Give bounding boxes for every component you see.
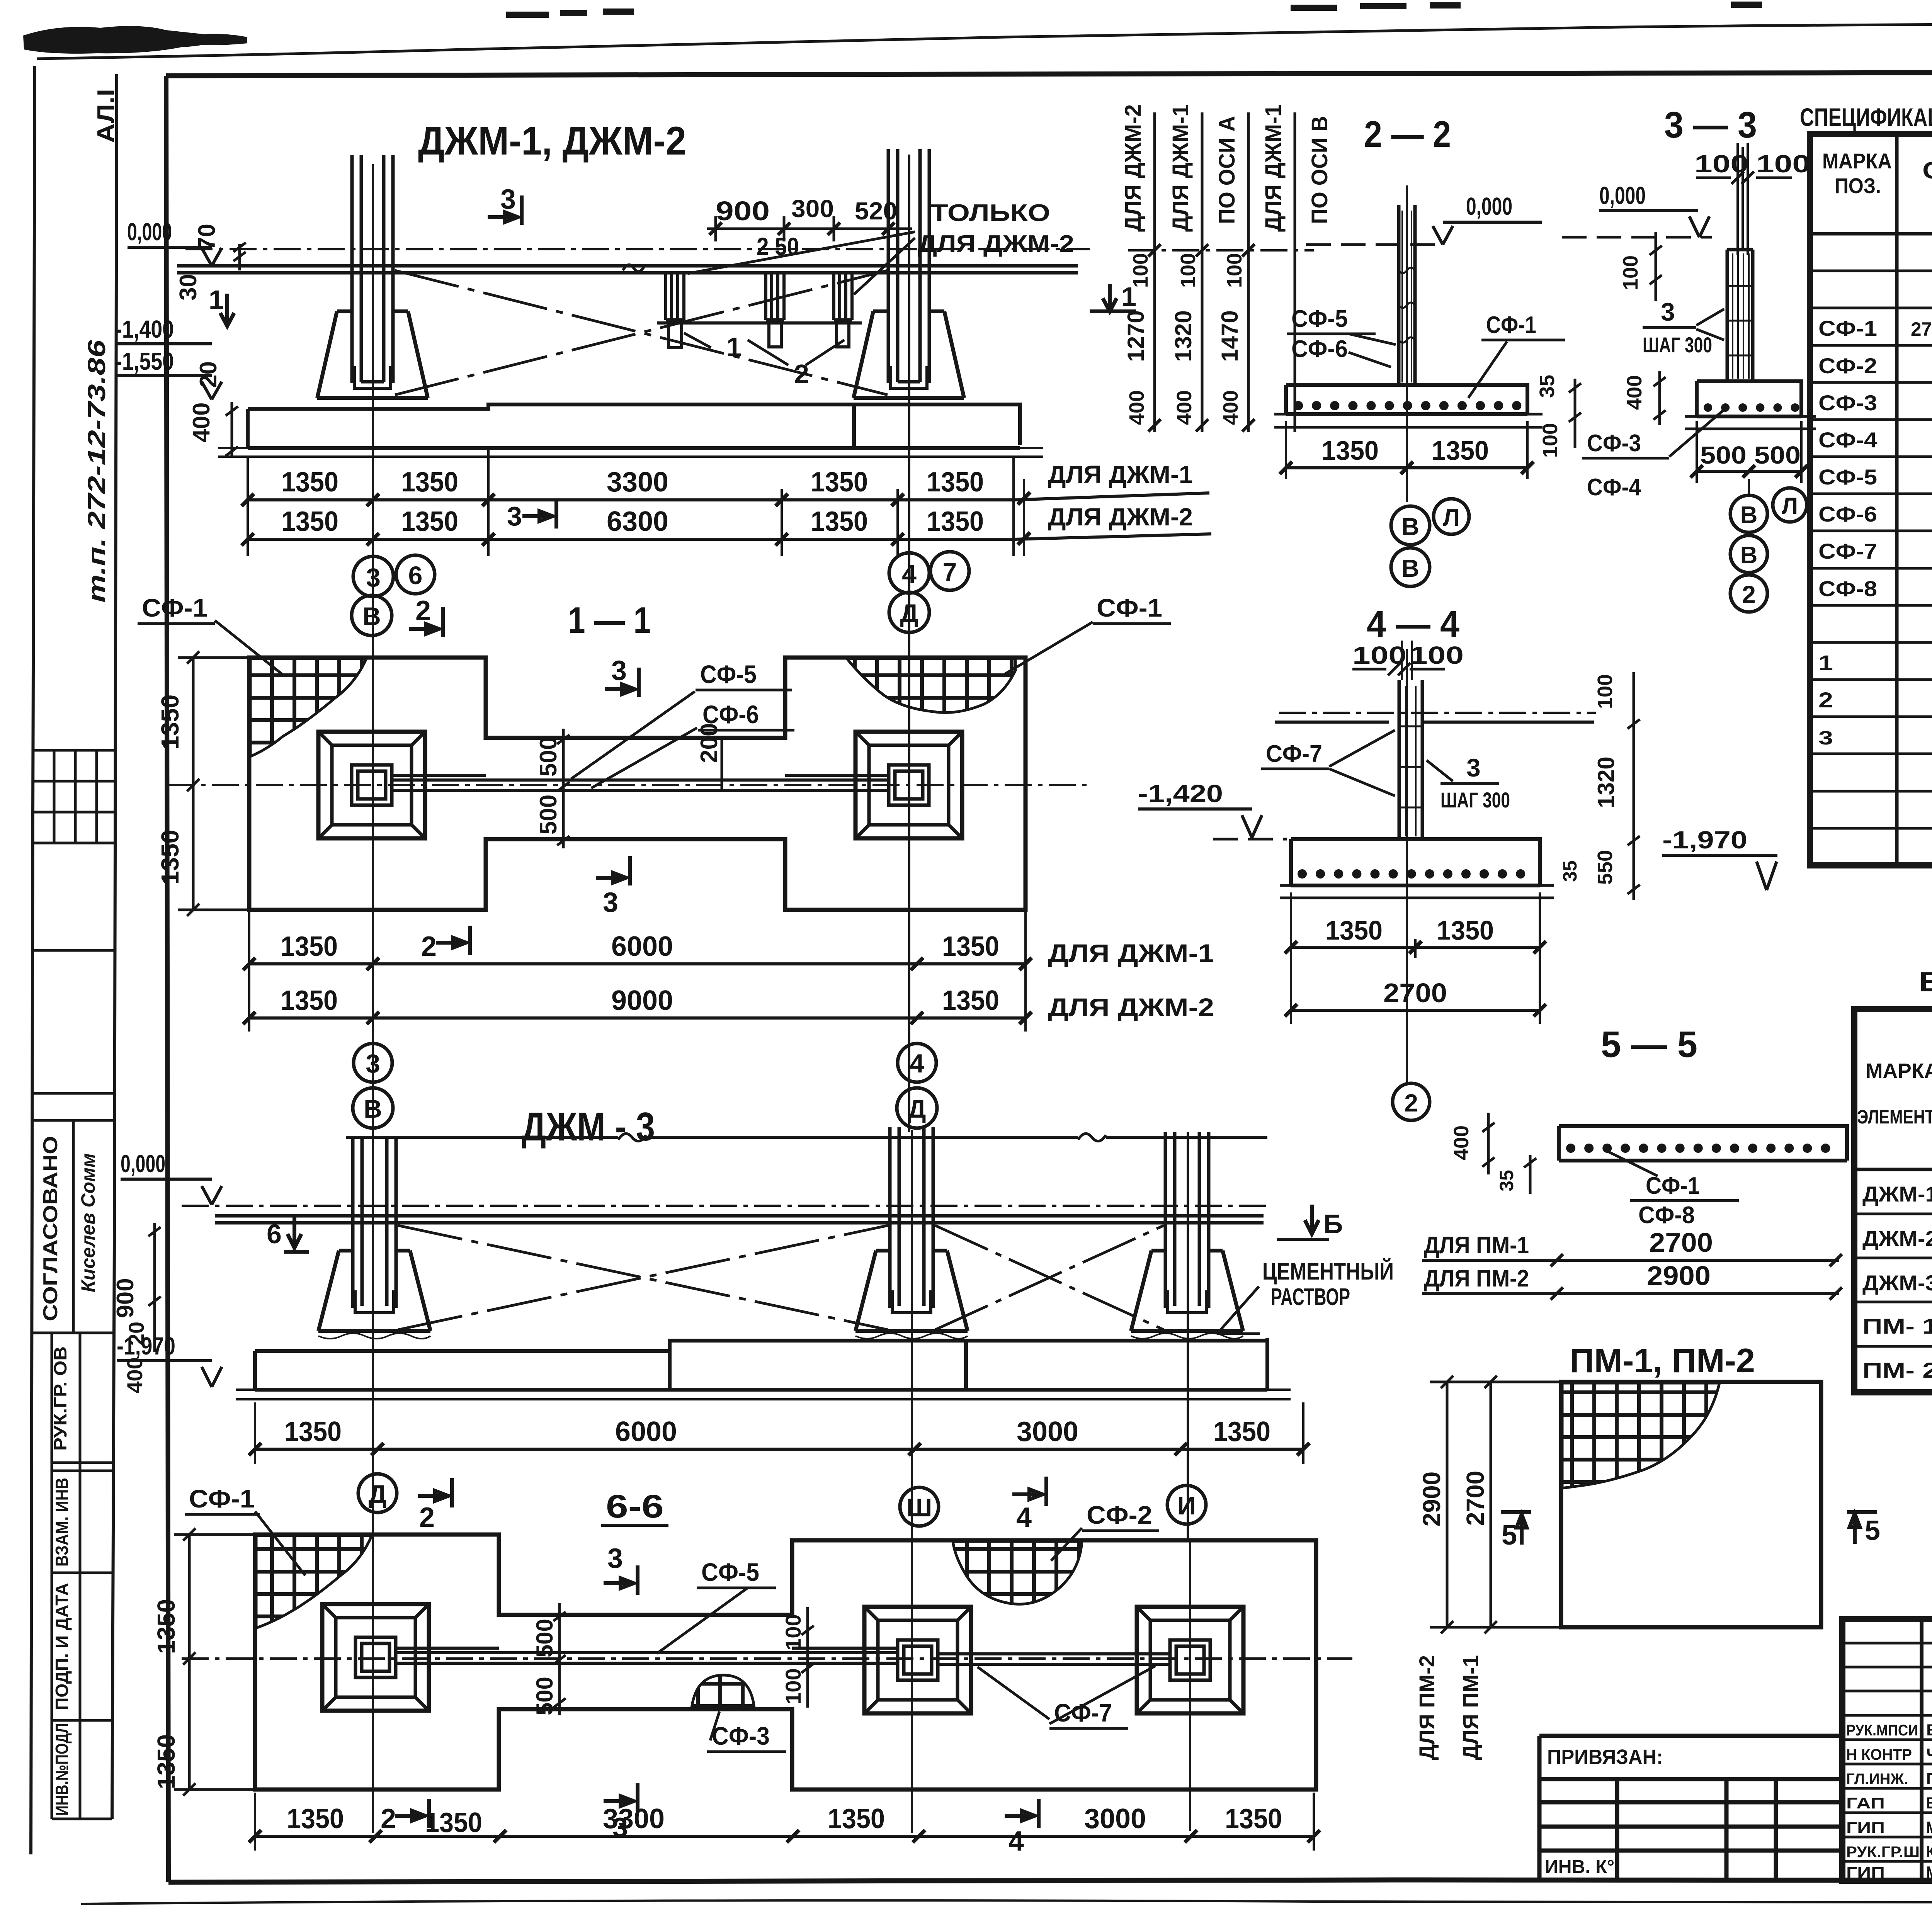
svg-text:В: В — [1401, 554, 1419, 582]
table1 column lines — [1897, 134, 1932, 865]
svg-text:1350: 1350 — [1437, 915, 1494, 945]
svg-text:2700: 2700 — [1649, 1227, 1713, 1258]
svg-text:1320: 1320 — [1170, 310, 1196, 362]
svg-text:ПО ОСИ А: ПО ОСИ А — [1214, 116, 1240, 224]
svg-text:4: 4 — [910, 1049, 924, 1078]
svg-text:ДЛЯ ДЖМ-1: ДЛЯ ДЖМ-1 — [1048, 939, 1214, 967]
svg-text:СФ-5: СФ-5 — [1818, 465, 1877, 489]
column left shaft — [352, 155, 393, 383]
svg-text:3: 3 — [1818, 727, 1833, 749]
svg-text:100: 100 — [1756, 150, 1810, 178]
svg-text:35: 35 — [1559, 860, 1581, 882]
floor lines both sides — [1275, 721, 1594, 724]
svg-text:МАРКА: МАРКА — [1822, 149, 1892, 173]
svg-text:35: 35 — [1536, 375, 1559, 398]
dim row2 ticks — [241, 532, 1030, 546]
dim row1 ticks — [241, 492, 1030, 506]
axis pad3 — [1189, 1541, 1191, 1831]
scanner blob top-left — [23, 26, 216, 54]
svg-text:СФ-5: СФ-5 — [1291, 306, 1348, 332]
svg-text:СФ-3: СФ-3 — [712, 1722, 770, 1750]
wall centerline — [182, 1657, 1352, 1660]
grid bubble Ш — [900, 1487, 939, 1526]
svg-text:1350: 1350 — [927, 506, 984, 537]
svg-text:1350: 1350 — [811, 467, 868, 498]
axis col3 — [1187, 1132, 1189, 1541]
mesh hatch top-left 6-6 — [256, 1536, 372, 1628]
vertical dim line left of plan — [178, 651, 255, 916]
svg-text:6: 6 — [267, 1219, 282, 1249]
svg-text:3000: 3000 — [1017, 1416, 1078, 1447]
note leaders — [688, 232, 915, 294]
floor break squiggle — [623, 265, 645, 271]
svg-text:4: 4 — [902, 559, 917, 589]
column 1 socket cup — [355, 1290, 394, 1313]
svg-text:500: 500 — [532, 1677, 558, 1715]
svg-text:БУКСОН: БУКСОН — [1926, 1721, 1932, 1739]
section mark 4 in row — [1005, 1799, 1039, 1828]
svg-text:РАСТВОР: РАСТВОР — [1271, 1284, 1350, 1310]
svg-text:4: 4 — [1016, 1502, 1032, 1533]
svg-text:1350: 1350 — [281, 506, 338, 537]
svg-text:СФ-2: СФ-2 — [1087, 1501, 1152, 1529]
level dash line — [1306, 243, 1445, 246]
svg-text:3: 3 — [603, 887, 618, 918]
main frame top border — [166, 72, 1932, 76]
column right shaft — [888, 149, 929, 383]
level dash-dot — [182, 1205, 1267, 1207]
svg-text:100: 100 — [1594, 674, 1617, 709]
title block left verticals — [1922, 1619, 1932, 1881]
svg-text:-1,400: -1,400 — [115, 315, 174, 343]
svg-text:6: 6 — [408, 561, 423, 590]
svg-text:ДЛЯ ДЖМ-1: ДЛЯ ДЖМ-1 — [1048, 461, 1193, 488]
rebar pair above column — [1402, 641, 1412, 680]
svg-text:500: 500 — [532, 1619, 558, 1657]
svg-text:1320: 1320 — [1593, 756, 1619, 808]
svg-text:ГЛ.ИНЖ.: ГЛ.ИНЖ. — [1846, 1771, 1908, 1788]
cross brace X 1-2 — [398, 1225, 888, 1330]
svg-text:1350: 1350 — [401, 506, 458, 537]
dim extensions — [255, 1402, 1303, 1464]
rebar hooks 4-4 — [1302, 869, 1536, 879]
svg-text:СФ-6: СФ-6 — [1818, 502, 1877, 526]
svg-text:1350: 1350 — [287, 1803, 344, 1834]
svg-text:СФ-8: СФ-8 — [1638, 1202, 1695, 1229]
slab bedding — [236, 1390, 1291, 1399]
svg-text:ГЛАВВЕР: ГЛАВВЕР — [1926, 1769, 1932, 1788]
svg-text:ДЖМ-3: ДЖМ-3 — [1862, 1271, 1932, 1295]
svg-text:Д: Д — [908, 1094, 926, 1123]
svg-text:100: 100 — [1129, 253, 1152, 288]
svg-text:2700: 2700 — [1461, 1471, 1489, 1526]
svg-text:ДЖМ-1, ДЖМ-2: ДЖМ-1, ДЖМ-2 — [418, 119, 686, 163]
svg-text:ДЛЯ ДЖМ-2: ДЛЯ ДЖМ-2 — [1121, 104, 1146, 232]
svg-text:500: 500 — [1754, 441, 1801, 469]
svg-text:2 — 2: 2 — 2 — [1364, 114, 1451, 155]
svg-text:ПОЗ.: ПОЗ. — [1835, 173, 1881, 198]
svg-text:СФ-4: СФ-4 — [1587, 474, 1641, 501]
mortar squiggles — [318, 1333, 1243, 1339]
svg-text:400: 400 — [188, 403, 215, 442]
svg-text:0,000: 0,000 — [121, 1150, 165, 1178]
bubble 2 — [1730, 575, 1767, 612]
table2 outer box — [1854, 1009, 1932, 1392]
bubble 2 — [1393, 1083, 1430, 1120]
column mesh waves — [1733, 253, 1749, 379]
svg-text:ШАГ 300: ШАГ 300 — [1440, 788, 1510, 812]
svg-text:100: 100 — [1223, 253, 1246, 288]
svg-text:-1,970: -1,970 — [117, 1332, 175, 1360]
svg-text:ДЛЯ ДЖМ-1: ДЛЯ ДЖМ-1 — [1168, 104, 1193, 232]
svg-text:400: 400 — [122, 1357, 147, 1393]
СФ leaders — [571, 692, 697, 788]
svg-text:СФ-5: СФ-5 — [700, 660, 757, 688]
svg-text:35: 35 — [1496, 1170, 1517, 1191]
foundation block right — [854, 311, 964, 398]
table2 header lines — [1854, 1061, 1932, 1169]
svg-text:400: 400 — [1125, 390, 1148, 425]
grid bubble Д — [889, 592, 929, 632]
привязан box — [1539, 1736, 1842, 1881]
dim row2 line — [248, 534, 1211, 539]
bedding 3-3 — [1685, 416, 1816, 429]
svg-text:1350: 1350 — [281, 467, 338, 498]
bottom scan wavy line — [81, 1900, 1932, 1904]
svg-text:400: 400 — [1173, 390, 1196, 425]
svg-text:ТОЛЬКО: ТОЛЬКО — [930, 200, 1050, 226]
grid bubble В — [353, 1088, 393, 1128]
svg-text:3: 3 — [611, 655, 627, 686]
foundation slab — [248, 404, 1020, 448]
svg-text:СОГЛАСОВАНО: СОГЛАСОВАНО — [39, 1136, 62, 1321]
footing pad right — [855, 732, 962, 838]
svg-text:СФ-1: СФ-1 — [1818, 316, 1877, 340]
svg-text:В: В — [1740, 502, 1758, 529]
column 2 shaft — [890, 1127, 933, 1308]
svg-text:1: 1 — [1818, 651, 1833, 675]
column joint squiggles — [1402, 211, 1412, 382]
column 3 shaft — [1165, 1132, 1209, 1308]
svg-text:1350: 1350 — [152, 1734, 180, 1789]
title block left rows — [1842, 1643, 1932, 1861]
svg-text:2: 2 — [1404, 1089, 1418, 1117]
svg-text:100: 100 — [781, 1614, 805, 1650]
svg-text:Ш: Ш — [906, 1493, 932, 1522]
dim row line 6-6 — [255, 1835, 1314, 1838]
grid bubble Д — [897, 1088, 937, 1128]
svg-text:100: 100 — [781, 1668, 805, 1704]
svg-text:ДЖМ-2: ДЖМ-2 — [1862, 1226, 1932, 1251]
beam break squiggles — [618, 1134, 1106, 1141]
bubble В2 — [1730, 535, 1767, 573]
svg-text:АЛ.I: АЛ.I — [93, 89, 119, 143]
column 4-4 — [1399, 680, 1422, 839]
bubble Л — [1434, 499, 1469, 534]
svg-text:ДЛЯ ДЖМ-2: ДЛЯ ДЖМ-2 — [918, 231, 1074, 257]
svg-text:ЧЕСОВА: ЧЕСОВА — [1926, 1745, 1932, 1763]
dim row line — [255, 1448, 1303, 1451]
svg-text:2: 2 — [415, 595, 431, 626]
100 100 rotated dims — [801, 1607, 814, 1708]
svg-text:СФ-1: СФ-1 — [1486, 312, 1536, 338]
scan top wavy line — [37, 20, 1932, 59]
svg-text:ДЛЯ ДЖМ-1: ДЛЯ ДЖМ-1 — [1261, 104, 1286, 232]
svg-text:СФ-6: СФ-6 — [1291, 336, 1348, 362]
svg-text:2: 2 — [421, 931, 437, 962]
scan top dark dashes — [506, 5, 1762, 15]
svg-text:1350: 1350 — [281, 931, 338, 962]
svg-text:3: 3 — [1466, 753, 1481, 782]
svg-text:ДЖМ - 3: ДЖМ - 3 — [522, 1105, 655, 1149]
slab bedding line — [218, 448, 1043, 457]
svg-text:3: 3 — [1661, 297, 1675, 326]
svg-text:МАРКОВКИН: МАРКОВКИН — [1926, 1818, 1932, 1836]
grid bubble 7 — [930, 552, 969, 590]
svg-text:ДЛЯ ПМ-2: ДЛЯ ПМ-2 — [1424, 1265, 1529, 1292]
svg-text:200: 200 — [696, 723, 723, 763]
взам.инв box — [52, 1572, 112, 1574]
svg-text:Д: Д — [900, 599, 918, 627]
stamp grid small boxes — [33, 750, 116, 843]
svg-text:Л: Л — [1782, 493, 1798, 519]
svg-text:1350: 1350 — [828, 1803, 885, 1834]
svg-text:ВЗАМ. ИНВ: ВЗАМ. ИНВ — [52, 1478, 72, 1567]
column right socket cup — [891, 366, 927, 388]
level line 0.000 dash-dot — [185, 248, 1090, 250]
svg-text:СФ-5: СФ-5 — [701, 1558, 759, 1586]
grid bubble 4 — [889, 553, 929, 593]
svg-text:В: В — [1740, 542, 1758, 569]
svg-text:СФ-7: СФ-7 — [1054, 1698, 1112, 1727]
dim 500 500 — [1697, 470, 1801, 473]
svg-text:СФ-7: СФ-7 — [1266, 741, 1322, 767]
mesh hatch top-right — [847, 659, 1015, 713]
vertical dim lines ПМ — [1430, 1376, 1561, 1633]
svg-text:3: 3 — [366, 1049, 380, 1078]
slab 2-2 — [1286, 385, 1527, 414]
svg-text:3000: 3000 — [1084, 1803, 1146, 1834]
svg-text:0,000: 0,000 — [1599, 182, 1646, 209]
svg-text:1350: 1350 — [1321, 435, 1379, 466]
svg-text:СФ-3: СФ-3 — [1818, 391, 1877, 415]
svg-text:1350: 1350 — [1432, 435, 1489, 466]
svg-text:1350: 1350 — [942, 985, 999, 1016]
section mark 5 right — [1847, 1512, 1877, 1544]
svg-text:-1,550: -1,550 — [115, 347, 174, 375]
section mark 3 lower — [596, 856, 630, 885]
dim extensions — [249, 912, 1026, 1032]
mesh hatch СФ-2 area — [953, 1541, 1082, 1604]
svg-text:СФ-1: СФ-1 — [1097, 593, 1162, 622]
plan outline 6-6 — [255, 1535, 1316, 1790]
svg-text:1470: 1470 — [1217, 310, 1243, 362]
svg-text:В: В — [364, 1094, 382, 1123]
grid bubble Д — [358, 1474, 397, 1513]
svg-text:т.п. 272-12-73.86: т.п. 272-12-73.86 — [83, 340, 111, 603]
column 3 socket cup — [1168, 1290, 1206, 1313]
svg-text:1350: 1350 — [401, 467, 458, 498]
svg-text:ПРИВЯЗАН:: ПРИВЯЗАН: — [1547, 1745, 1663, 1769]
svg-text:300: 300 — [791, 195, 834, 223]
svg-text:3: 3 — [507, 501, 522, 531]
title block outer — [1842, 1619, 1932, 1881]
column axis — [1406, 185, 1408, 502]
cross brace X — [395, 270, 888, 395]
svg-text:ГАП: ГАП — [1846, 1795, 1885, 1812]
svg-text:ШАГ 300: ШАГ 300 — [1643, 333, 1712, 357]
svg-text:СФ-2: СФ-2 — [1818, 353, 1877, 378]
svg-text:ДЛЯ ПМ-1: ДЛЯ ПМ-1 — [1424, 1232, 1529, 1259]
bedding 2-2 — [1274, 414, 1543, 427]
svg-text:1350: 1350 — [156, 830, 184, 885]
dim extensions 2-2 — [1286, 421, 1527, 479]
grid bubble И — [1167, 1485, 1206, 1524]
svg-text:520: 520 — [855, 197, 897, 225]
column left socket cup — [354, 366, 391, 388]
svg-text:900: 900 — [716, 196, 770, 226]
svg-text:-1,420: -1,420 — [1138, 780, 1223, 807]
500 500 rotated dims — [553, 1603, 566, 1715]
svg-text:1350: 1350 — [152, 1599, 180, 1654]
bubble В2 — [1391, 548, 1430, 586]
column 1 shaft — [353, 1139, 396, 1308]
svg-text:1350: 1350 — [1325, 915, 1383, 945]
svg-text:ИНВ. К°: ИНВ. К° — [1545, 1857, 1614, 1877]
slab 5-5 — [1559, 1126, 1847, 1161]
svg-text:6-6: 6-6 — [606, 1488, 664, 1524]
svg-text:ДЛЯ ПМ-1: ДЛЯ ПМ-1 — [1458, 1655, 1483, 1760]
grid bubble В — [352, 595, 392, 636]
column 3-3 — [1727, 250, 1753, 381]
svg-text:СФ-1: СФ-1 — [142, 593, 207, 622]
svg-text:1350: 1350 — [1225, 1803, 1282, 1834]
svg-text:1: 1 — [726, 332, 742, 362]
slab 4-4 — [1291, 839, 1540, 885]
svg-text:СФ-1: СФ-1 — [1646, 1173, 1700, 1199]
svg-text:4 — 4: 4 — 4 — [1367, 603, 1459, 645]
svg-text:1350: 1350 — [811, 506, 868, 537]
slab 3-3 — [1697, 381, 1801, 416]
foundation block 3 — [1131, 1251, 1243, 1331]
инв. подл box — [52, 1818, 112, 1820]
column 2 socket cup — [892, 1290, 931, 1313]
right dim ruler — [1628, 672, 1640, 900]
svg-text:1350: 1350 — [156, 695, 184, 749]
plan outline 1-1 — [249, 658, 1026, 910]
dim extension lines — [248, 450, 1024, 556]
stamp strip right line — [112, 74, 117, 1819]
foundation block 1 — [318, 1251, 430, 1331]
stamp box divider — [32, 950, 115, 1093]
grid bubble 4 — [898, 1043, 936, 1082]
svg-text:В: В — [362, 602, 381, 631]
svg-text:ДЖМ-1: ДЖМ-1 — [1862, 1182, 1932, 1206]
svg-text:СПЕЦИФИКАЦИЯ ЭЛЕМЕНТОВ ДИАФРАГ: СПЕЦИФИКАЦИЯ ЭЛЕМЕНТОВ ДИАФРАГМЫ ЖЕСТКОС… — [1800, 103, 1932, 131]
footing pad 3 — [1137, 1607, 1243, 1713]
section mark 1 right — [1090, 284, 1136, 311]
svg-text:СФ-7: СФ-7 — [1818, 539, 1877, 563]
table2 row lines — [1854, 1214, 1932, 1346]
foundation slab ДЖМ-3 — [255, 1338, 1267, 1390]
svg-text:ПОДП. И ДАТА: ПОДП. И ДАТА — [52, 1583, 72, 1710]
section mark 5 left — [1501, 1512, 1531, 1545]
svg-text:5 — 5: 5 — 5 — [1601, 1024, 1697, 1065]
svg-text:1 — 1: 1 — 1 — [568, 600, 651, 641]
grid bubble 3 — [353, 556, 393, 597]
svg-text:500: 500 — [535, 737, 562, 777]
vertical dim line left 6-6 — [174, 1528, 255, 1796]
svg-text:1350: 1350 — [1213, 1416, 1270, 1447]
svg-text:ДЛЯ ДЖМ-2: ДЛЯ ДЖМ-2 — [1048, 993, 1214, 1021]
bubble В — [1391, 506, 1430, 545]
bedding 4-4 — [1280, 885, 1554, 898]
svg-text:9000: 9000 — [611, 985, 673, 1016]
svg-text:6000: 6000 — [611, 931, 673, 962]
section mark 4 — [1012, 1477, 1046, 1506]
column joints — [1406, 686, 1416, 836]
axis column 3/В — [372, 164, 374, 1833]
wall centerline — [168, 784, 1090, 786]
согласовано box — [32, 1120, 114, 1333]
svg-text:1350: 1350 — [425, 1807, 482, 1838]
svg-text:КИРПИЧЕВА: КИРПИЧЕВА — [1926, 1842, 1932, 1861]
level dash-dot — [1279, 712, 1596, 714]
svg-text:Н КОНТР: Н КОНТР — [1846, 1746, 1912, 1763]
grid bubble 3 — [354, 1043, 392, 1082]
svg-text:500: 500 — [1700, 441, 1747, 469]
dim line 2-2 — [1286, 466, 1527, 469]
svg-text:Л: Л — [1443, 505, 1460, 531]
svg-text:ПМ- 1: ПМ- 1 — [1862, 1314, 1932, 1338]
svg-text:5: 5 — [1865, 1515, 1880, 1546]
sheet left edge line — [31, 66, 35, 1854]
svg-text:ПМ- 2: ПМ- 2 — [1862, 1358, 1932, 1382]
svg-text:ПО ОСИ В: ПО ОСИ В — [1307, 116, 1332, 224]
svg-text:ЦЕМЕНТНЫЙ: ЦЕМЕНТНЫЙ — [1262, 1258, 1394, 1285]
rebar hooks 5-5 — [1571, 1144, 1843, 1153]
svg-text:2900: 2900 — [1418, 1472, 1446, 1526]
dim row1 line — [248, 493, 1209, 500]
axis col2 — [911, 1130, 913, 1833]
svg-text:100: 100 — [1619, 255, 1642, 290]
floor double line — [177, 266, 1078, 273]
svg-text:ЭЛЕМЕНТА: ЭЛЕМЕНТА — [1857, 1106, 1932, 1128]
подп. и дата box — [52, 1719, 112, 1722]
svg-text:3: 3 — [607, 1543, 623, 1574]
svg-text:2: 2 — [1818, 688, 1833, 712]
svg-text:1: 1 — [209, 285, 224, 315]
svg-text:БАРЫШЕВА: БАРЫШЕВА — [1926, 1794, 1932, 1812]
grid bubble 6 — [396, 555, 435, 594]
svg-text:И: И — [1177, 1491, 1196, 1520]
svg-text:ДЛЯ ДЖМ-2: ДЛЯ ДЖМ-2 — [1048, 503, 1193, 531]
svg-text:272-12-73.86 АС1.И2.05.00: 272-12-73.86 АС1.И2.05.00 — [1911, 318, 1932, 340]
dim row2 4-4 — [1291, 1009, 1540, 1012]
svg-text:1350: 1350 — [284, 1416, 342, 1447]
rebar dots 3-3 — [1708, 403, 1797, 412]
svg-text:1350: 1350 — [942, 931, 999, 962]
svg-text:ИНВ.№ПОДЛ: ИНВ.№ПОДЛ — [52, 1723, 72, 1816]
svg-text:100: 100 — [1539, 423, 1562, 458]
small hatch СФ-3 — [692, 1675, 754, 1708]
foundation block 2 — [855, 1251, 968, 1331]
svg-text:СФ-4: СФ-4 — [1818, 428, 1877, 452]
section mark Б right — [1305, 1205, 1319, 1234]
rotated ruler lines — [1155, 112, 1295, 432]
svg-text:500: 500 — [535, 795, 562, 834]
foundation block left — [317, 311, 428, 398]
